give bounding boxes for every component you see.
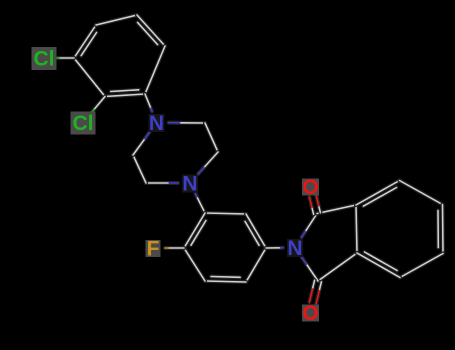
benzo edge C5-C4 [400, 254, 443, 278]
central ring edge C2-C1 inner [245, 222, 259, 246]
imide C1-C7a [317, 205, 356, 214]
svg-text:N: N [182, 172, 197, 195]
ring A edge C3-C4 [74, 25, 96, 58]
atom label N at N2 [182, 172, 198, 195]
central ring edge C4-C3 [184, 213, 205, 248]
carbonyl C1=O top line1 [316, 195, 320, 212]
imide N-C1 [302, 214, 318, 238]
atom label O at O2 [302, 302, 319, 325]
ring A edge C3-C4 inner [81, 33, 96, 56]
benzo edge C7-C6 [400, 181, 443, 205]
atom label O at O1 [302, 176, 319, 199]
piperazine C2-C3 [205, 123, 218, 152]
central ring edge C4-C3 inner [191, 221, 206, 246]
ring A edge C5-C6 [137, 15, 165, 46]
carbonyl C3=O bottom line1 [309, 280, 314, 302]
ring A edge C2-C3 [74, 58, 105, 97]
svg-text:O: O [302, 302, 318, 325]
benzo edge C4-C3a [357, 253, 400, 278]
bond C2-Cl2 [91, 97, 105, 114]
central ring edge C6-C5 inner [211, 275, 240, 280]
benzo edge C4-C3a inner [365, 252, 398, 271]
atom label F at F [146, 237, 161, 260]
imide C3-N [302, 257, 318, 281]
bond C3-Cl1 [56, 56, 74, 60]
fused bond C7a-C3a [356, 205, 357, 253]
svg-text:N: N [149, 112, 164, 135]
svg-text:O: O [302, 176, 318, 199]
ring A edge C5-C6 inner [138, 23, 158, 45]
piperazine C6-N1 [133, 132, 150, 155]
benzo edge C6-C5 [441, 205, 446, 254]
atom label Cl at Cl1 [32, 47, 57, 70]
piperazine N4-C5 [146, 181, 178, 185]
svg-text:F: F [147, 237, 160, 260]
central ring edge C6-C5 [205, 281, 246, 282]
bond C1-N1 [145, 94, 152, 111]
carbonyl C1=O top line2 [309, 197, 313, 214]
ring A edge C4-C5 [96, 15, 137, 25]
atom label N at N3 [287, 237, 303, 260]
imide C3a-C3 [318, 253, 357, 281]
piperazine N1-C2 [169, 121, 206, 125]
bond C1-N3 [266, 246, 283, 250]
benzo edge C7a-C7 [356, 181, 400, 206]
central ring edge C5-C4 [184, 248, 205, 281]
piperazine C3-N4 [198, 152, 218, 174]
central ring edge C1-C6 [246, 248, 266, 282]
atom label Cl at Cl2 [71, 112, 96, 135]
atom label N at N1 [149, 112, 165, 135]
svg-text:Cl: Cl [73, 112, 94, 135]
svg-text:Cl: Cl [34, 47, 55, 70]
ring A edge C1-C2 [105, 94, 145, 97]
bond N4-central ring [195, 194, 205, 213]
central ring edge C2-C1 [246, 214, 266, 248]
central ring edge C3-C2 [205, 213, 246, 214]
carbonyl C3=O bottom line2 [316, 282, 321, 304]
benzo edge C7a-C7 inner [364, 188, 397, 207]
bond C4-F [165, 246, 184, 250]
ring A edge C6-C1 [145, 46, 165, 94]
ring A edge C1-C2 inner [111, 90, 139, 92]
svg-text:N: N [287, 237, 302, 260]
piperazine C5-C6 [133, 155, 146, 183]
benzo edge C6-C5 inner [436, 211, 440, 248]
